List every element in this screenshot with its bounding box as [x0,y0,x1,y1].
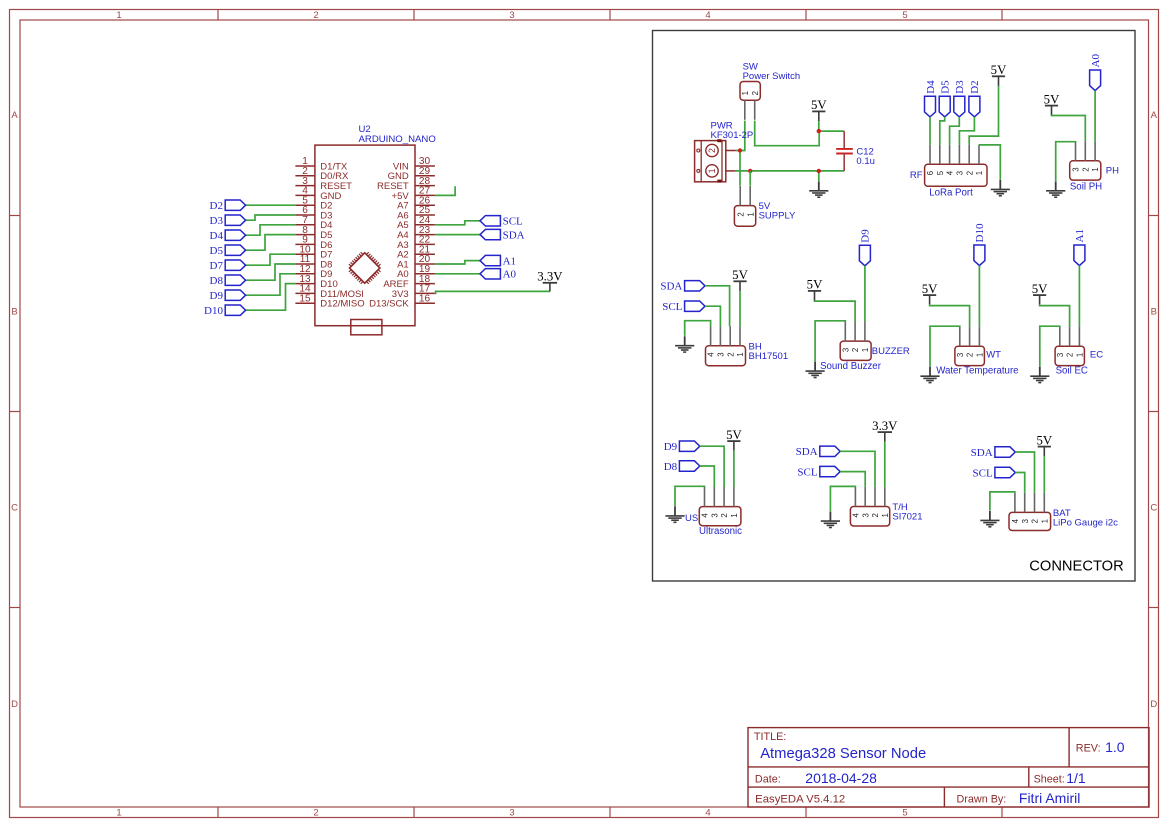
svg-text:5V: 5V [811,98,827,112]
svg-text:D9: D9 [210,290,224,302]
wire LoRa pin1 to ground [979,145,1000,180]
U2 pin 2 D0/RX [295,166,349,182]
svg-text:3.3V: 3.3V [537,270,563,284]
Ultrasonic label [699,526,742,537]
net flag D4 [210,230,246,242]
wire net A1 from U2 [435,261,480,264]
WT label [986,350,1001,361]
wire D2 to LoRa pin3 [959,117,974,145]
svg-text:4: 4 [707,352,716,357]
connector TH SI7021 [850,487,890,526]
svg-text:D2: D2 [969,80,981,93]
svg-text:D: D [1150,699,1157,710]
wire D9 to BUZZER pin1 [864,266,866,322]
wire D8 to US pin3 [700,466,715,487]
svg-text:5V: 5V [807,278,823,292]
U2 pin 9 D6 [295,235,332,251]
svg-text:1: 1 [746,212,755,216]
svg-text:5: 5 [936,170,945,175]
svg-text:2: 2 [726,352,735,356]
power 5V at US [726,428,742,451]
svg-text:B: B [11,307,17,318]
svg-text:2: 2 [751,91,760,95]
junction 5V rail [817,129,821,133]
svg-text:1: 1 [707,168,717,173]
svg-text:SI7021: SI7021 [892,512,922,523]
wire net SDA from U2 A4 [435,234,480,236]
Soil EC label [1056,366,1088,377]
U2 pin 30 VIN [393,156,435,172]
U2 pin 29 GND [388,166,435,182]
wire US pin4 to ground [675,486,705,506]
svg-text:KF301-2P: KF301-2P [711,130,754,141]
svg-text:SCL: SCL [662,301,682,313]
net flag D10 at WT [974,223,986,266]
svg-text:SDA: SDA [660,281,682,293]
wire A1 to EC pin1 [1078,266,1080,327]
net flag SDA [480,229,525,241]
wire 5V to LoRa pin2 [969,86,998,145]
svg-text:1: 1 [975,171,984,175]
wire 5V to BAT pin1 [1043,456,1045,493]
svg-text:2: 2 [851,348,860,352]
U2 pin 15 D12/MISO [295,293,364,309]
svg-text:EasyEDA V5.4.12: EasyEDA V5.4.12 [755,794,845,806]
net flag A1 at EC [1074,229,1086,266]
power 5V at PH [1044,92,1060,115]
connector PH Soil PH [1070,141,1101,180]
U2 pin 21 A2 [397,244,435,260]
title block EasyEDA version [755,794,845,806]
svg-text:2: 2 [736,212,745,216]
wire BUZZER pin3 to ground [815,321,845,362]
svg-text:D5: D5 [940,80,952,94]
svg-text:D8: D8 [664,461,678,473]
svg-text:2: 2 [1031,519,1040,523]
TH label [892,502,922,523]
power 5V at EC [1032,282,1048,305]
svg-text:TITLE:: TITLE: [754,731,786,743]
wire net A0 from U2 [435,273,480,275]
svg-text:CONNECTOR: CONNECTOR [1029,559,1123,575]
svg-text:1: 1 [976,353,985,357]
svg-text:4: 4 [705,808,710,819]
svg-text:2018-04-28: 2018-04-28 [805,770,877,786]
U2 pin 24 A5 [397,215,435,231]
connector PWR label [711,121,754,142]
svg-text:5V: 5V [726,428,742,442]
svg-text:D9: D9 [860,229,872,243]
svg-text:A1: A1 [1074,229,1086,242]
U2 pin 16 D13/SCK [369,293,435,309]
svg-text:EC: EC [1090,350,1103,361]
ground at BUZZER [806,362,825,378]
svg-text:1: 1 [1091,167,1100,171]
connector BUZZER [840,322,871,361]
net flag SCL at TH [797,466,840,478]
U2 pin 12 D9 [295,264,332,280]
net flag D9 at US [664,441,700,453]
svg-text:6: 6 [926,171,935,175]
ground at LoRa [991,180,1010,196]
svg-text:5V: 5V [1036,433,1052,447]
svg-text:2: 2 [313,10,318,21]
svg-text:1: 1 [1040,519,1049,523]
wire D10 to WT pin1 [978,266,980,327]
svg-text:3: 3 [1056,353,1065,357]
net flag D8 at US [664,461,700,473]
wire SW pin2 to 5V junction [755,121,820,146]
wire net D9 to U2 [246,274,296,295]
power 5V at C12 [811,98,827,121]
power 5V at LoRa [991,63,1007,86]
U2 pin 3 RESET [295,176,352,192]
svg-text:Sheet:: Sheet: [1034,774,1065,786]
connector section box [653,31,1136,582]
svg-text:2: 2 [1081,167,1090,171]
U2 pin 10 D7 [295,244,332,260]
wire net D4 to U2 [246,225,296,235]
U2 pin 4 GND [295,186,341,202]
svg-text:WT: WT [986,350,1001,361]
net flag D4 at LoRa [925,80,937,117]
wire PH pin3 to ground [1056,141,1076,181]
title block REV [1076,739,1125,755]
svg-text:4: 4 [946,170,955,175]
svg-text:5V: 5V [991,63,1007,77]
svg-text:4: 4 [705,10,710,21]
svg-text:3: 3 [1021,519,1030,523]
svg-text:Ultrasonic: Ultrasonic [699,526,742,537]
title block Drawn By [957,790,1081,806]
title block TITLE label [754,731,786,743]
ground at EC [1030,367,1049,383]
wire TH pin4 to ground [830,486,855,511]
svg-text:D5: D5 [210,245,224,257]
svg-text:1: 1 [1076,353,1085,357]
svg-text:4: 4 [1011,518,1020,523]
wire SDA to TH pin2 [840,451,875,487]
wire A0 to PH pin1 [1094,91,1096,142]
U2 chip diamond glyph [349,252,381,284]
svg-text:Soil PH: Soil PH [1070,181,1102,192]
svg-text:D4: D4 [210,230,224,242]
wire D4 to LoRa pin6 [929,117,931,145]
U2 pin 25 A6 [397,205,435,221]
svg-text:A0: A0 [1090,54,1102,68]
connector BH BH17501 [706,326,746,365]
svg-text:A: A [1151,110,1158,121]
svg-text:2: 2 [966,353,975,357]
net flag SDA at BH [660,281,705,293]
svg-text:2: 2 [720,513,729,517]
svg-text:Date:: Date: [755,774,781,786]
svg-text:1.0: 1.0 [1105,739,1125,755]
svg-text:3: 3 [509,808,514,819]
svg-text:2: 2 [871,513,880,517]
wire D9 to US pin2 [700,446,724,487]
ground at TH [821,512,840,528]
Water Temperature label [936,366,1018,377]
wire D5 to LoRa pin5 [940,117,945,145]
wire 5V to US pin1 [733,451,735,487]
svg-text:2: 2 [1066,353,1075,357]
BUZZER label [872,346,910,357]
PH label [1106,166,1119,177]
wire 5V to PH pin2 [1052,115,1086,141]
wire 5V to WT pin2 [930,305,970,327]
svg-text:SDA: SDA [503,229,525,241]
svg-text:D3: D3 [954,80,966,94]
Soil PH label [1070,181,1102,192]
wire SCL to BAT pin3 [1015,473,1024,493]
wire net D7 to U2 [246,254,296,265]
wire SCL to BH pin3 [705,306,720,326]
power 3.3V at TH [872,419,898,442]
svg-text:D13/SCK: D13/SCK [369,299,409,310]
svg-text:Power Switch: Power Switch [743,71,801,82]
net flag D2 at LoRa [969,80,981,117]
U2 pin 23 A4 [397,225,435,241]
wire net D5 to U2 [246,235,296,251]
title Atmega328 Sensor Node [760,745,926,762]
power 5V at BH [732,268,748,291]
svg-text:1: 1 [730,513,739,517]
RF label [910,170,923,181]
U2 pin 13 D10 [295,274,337,290]
svg-text:US: US [685,513,698,524]
svg-text:D2: D2 [210,200,223,212]
svg-text:C: C [11,503,18,514]
net flag SDA at BAT [971,447,1016,459]
CONNECTOR label [1029,559,1123,575]
U2 pin 1 D1/TX [295,156,347,172]
svg-text:2: 2 [965,171,974,175]
svg-text:Fitri Amiril: Fitri Amiril [1019,790,1080,806]
ground at US [665,506,684,522]
svg-text:2: 2 [313,808,318,819]
C12 value label [856,147,875,168]
junction PWR pin2 [738,148,742,152]
Sound Buzzer label [820,361,882,372]
svg-text:3: 3 [710,513,719,517]
power 3.3V at U2 [537,270,563,292]
IC U2 ARDUINO_NANO body [315,145,415,326]
U2 pin 26 A7 [397,195,435,211]
wire PWR pin2 node [736,151,740,186]
svg-text:BUZZER: BUZZER [872,346,910,357]
net flag D9 at BUZZER [859,229,871,266]
svg-text:D: D [11,699,18,710]
connector US Ultrasonic [699,487,741,526]
power 5V at BUZZER [807,278,823,301]
wire SW pin1 to PWR junction [740,121,745,151]
svg-text:4: 4 [852,512,861,517]
title block Date [755,770,877,786]
svg-text:Soil EC: Soil EC [1056,366,1088,377]
svg-text:D3: D3 [210,215,224,227]
svg-text:LoRa Port: LoRa Port [929,187,973,198]
U2 pin 8 D5 [295,225,332,241]
svg-text:1: 1 [741,91,750,95]
svg-text:5V: 5V [1044,92,1060,106]
svg-text:D8: D8 [210,275,224,287]
connector BAT [1009,493,1051,531]
connector EC [1055,327,1084,366]
svg-text:SDA: SDA [796,446,818,458]
connector WT [955,327,985,366]
power 5V at BAT [1036,433,1052,456]
svg-text:C: C [1150,503,1157,514]
svg-text:D10: D10 [204,305,223,317]
svg-text:3: 3 [956,171,965,175]
wire SUPPLY pin1 drop [749,171,751,186]
ground at BH [675,336,694,352]
svg-text:D7: D7 [210,260,224,272]
svg-text:3.3V: 3.3V [872,419,898,433]
net flag D8 [210,275,246,287]
svg-text:1: 1 [736,352,745,356]
svg-text:16: 16 [419,293,431,304]
wire net D3 to U2 [246,215,296,220]
wire U2 3V3 to 3.3V [435,291,550,293]
junction GND rail [817,169,821,173]
svg-text:B: B [1151,307,1157,318]
svg-text:BH17501: BH17501 [749,351,789,362]
svg-text:1: 1 [861,348,870,352]
svg-text:5V: 5V [922,282,938,296]
net flag A0 [480,269,517,281]
title block grid [748,728,1149,807]
svg-text:5: 5 [902,10,907,21]
svg-text:0.1u: 0.1u [856,156,875,167]
U2 value ARDUINO_NANO [359,134,436,145]
EC label [1090,350,1103,361]
U2 pin 22 A3 [397,235,435,251]
ground at BAT [980,511,999,527]
ground at C12 [809,181,828,197]
net flag D2 [210,200,246,212]
svg-text:SUPPLY: SUPPLY [759,210,796,221]
junction PWR pin1 [748,169,752,173]
switch SW [740,82,760,120]
U2 pin 19 A0 [397,264,435,280]
svg-text:3: 3 [956,353,965,357]
svg-text:SCL: SCL [973,467,993,479]
wire EC pin3 to ground [1040,326,1060,366]
connector SUPPLY label [759,201,796,222]
net flag D7 [210,260,246,272]
U2 pin 5 D2 [295,195,332,211]
U2 pin 17 3V3 [392,284,435,300]
wire GND rail drop [818,171,820,181]
BAT label [1053,508,1118,529]
BH label [749,341,789,362]
title block Sheet [1034,770,1086,786]
wire D3 to LoRa pin4 [950,117,960,145]
wire WT pin3 to ground [930,326,960,366]
net flag D10 [204,305,246,317]
net flag SCL at BH [662,301,705,313]
LoRa Port label [929,187,973,198]
svg-text:Atmega328 Sensor Node: Atmega328 Sensor Node [760,745,926,762]
svg-text:3: 3 [861,513,870,517]
net flag D5 at LoRa [939,80,951,117]
US label [685,513,698,524]
svg-text:3: 3 [717,352,726,356]
net flag D5 [210,245,246,257]
U2 pin 7 D4 [295,215,332,231]
wire 5V to rail junction [819,121,844,131]
wire SCL to TH pin3 [840,472,865,487]
U2 pin 28 RESET [377,176,435,192]
svg-text:3: 3 [1072,167,1081,171]
svg-text:1: 1 [116,808,121,819]
svg-text:Water Temperature: Water Temperature [936,366,1018,377]
svg-text:2: 2 [707,148,717,153]
svg-text:RF: RF [910,170,923,181]
svg-text:1: 1 [881,513,890,517]
wire U2 pin27 +5V stub [435,186,455,195]
U2 pin 14 D11/MOSI [295,284,364,300]
net flag D3 at LoRa [954,80,966,117]
U2 reference designator [359,124,371,135]
svg-text:1/1: 1/1 [1066,770,1086,786]
svg-text:PH: PH [1106,166,1119,177]
connector PWR KF301-2P [695,139,736,182]
wire BH pin4 to ground [685,321,711,336]
wire 5V to BUZZER pin2 [815,301,856,322]
svg-text:D10: D10 [974,223,986,242]
svg-text:D4: D4 [925,80,937,94]
wire 5V to EC pin2 [1040,305,1070,327]
svg-text:1: 1 [116,10,121,21]
power 5V at WT [922,282,938,305]
net flag D3 [210,215,246,227]
U2 pin 6 D3 [295,205,332,221]
net flag A0 at PH [1090,54,1102,91]
svg-text:REV:: REV: [1076,743,1101,755]
svg-text:3: 3 [509,10,514,21]
net flag D9 [210,290,246,302]
net flag SCL at BAT [973,467,1016,479]
U2 pin 18 AREF [383,274,435,290]
switch SW label [743,62,801,83]
wire net D2 to U2 [246,204,296,206]
svg-text:D12/MISO: D12/MISO [320,299,364,310]
wire 3.3V to TH pin1 [884,442,886,487]
connector 5V SUPPLY [734,186,755,226]
wire BAT pin4 to ground [990,492,1015,511]
svg-text:ARDUINO_NANO: ARDUINO_NANO [359,134,436,145]
svg-text:3: 3 [841,348,850,352]
wire SDA to BAT pin2 [1015,452,1034,493]
connector RF LoRa Port [925,145,987,187]
net flag SCL [480,216,523,228]
svg-text:5V: 5V [732,268,748,282]
svg-text:D9: D9 [664,441,678,453]
svg-text:SCL: SCL [797,466,817,478]
U2 pin 27 +5V [392,186,435,202]
wire 5V to BH pin1 [739,291,741,326]
wire net D8 to U2 [246,264,296,280]
ground at WT [920,367,939,383]
svg-text:Drawn By:: Drawn By: [957,794,1007,806]
svg-text:15: 15 [299,293,311,304]
svg-text:5: 5 [902,808,907,819]
U2 usb connector mark [351,320,382,335]
svg-text:SDA: SDA [971,447,993,459]
